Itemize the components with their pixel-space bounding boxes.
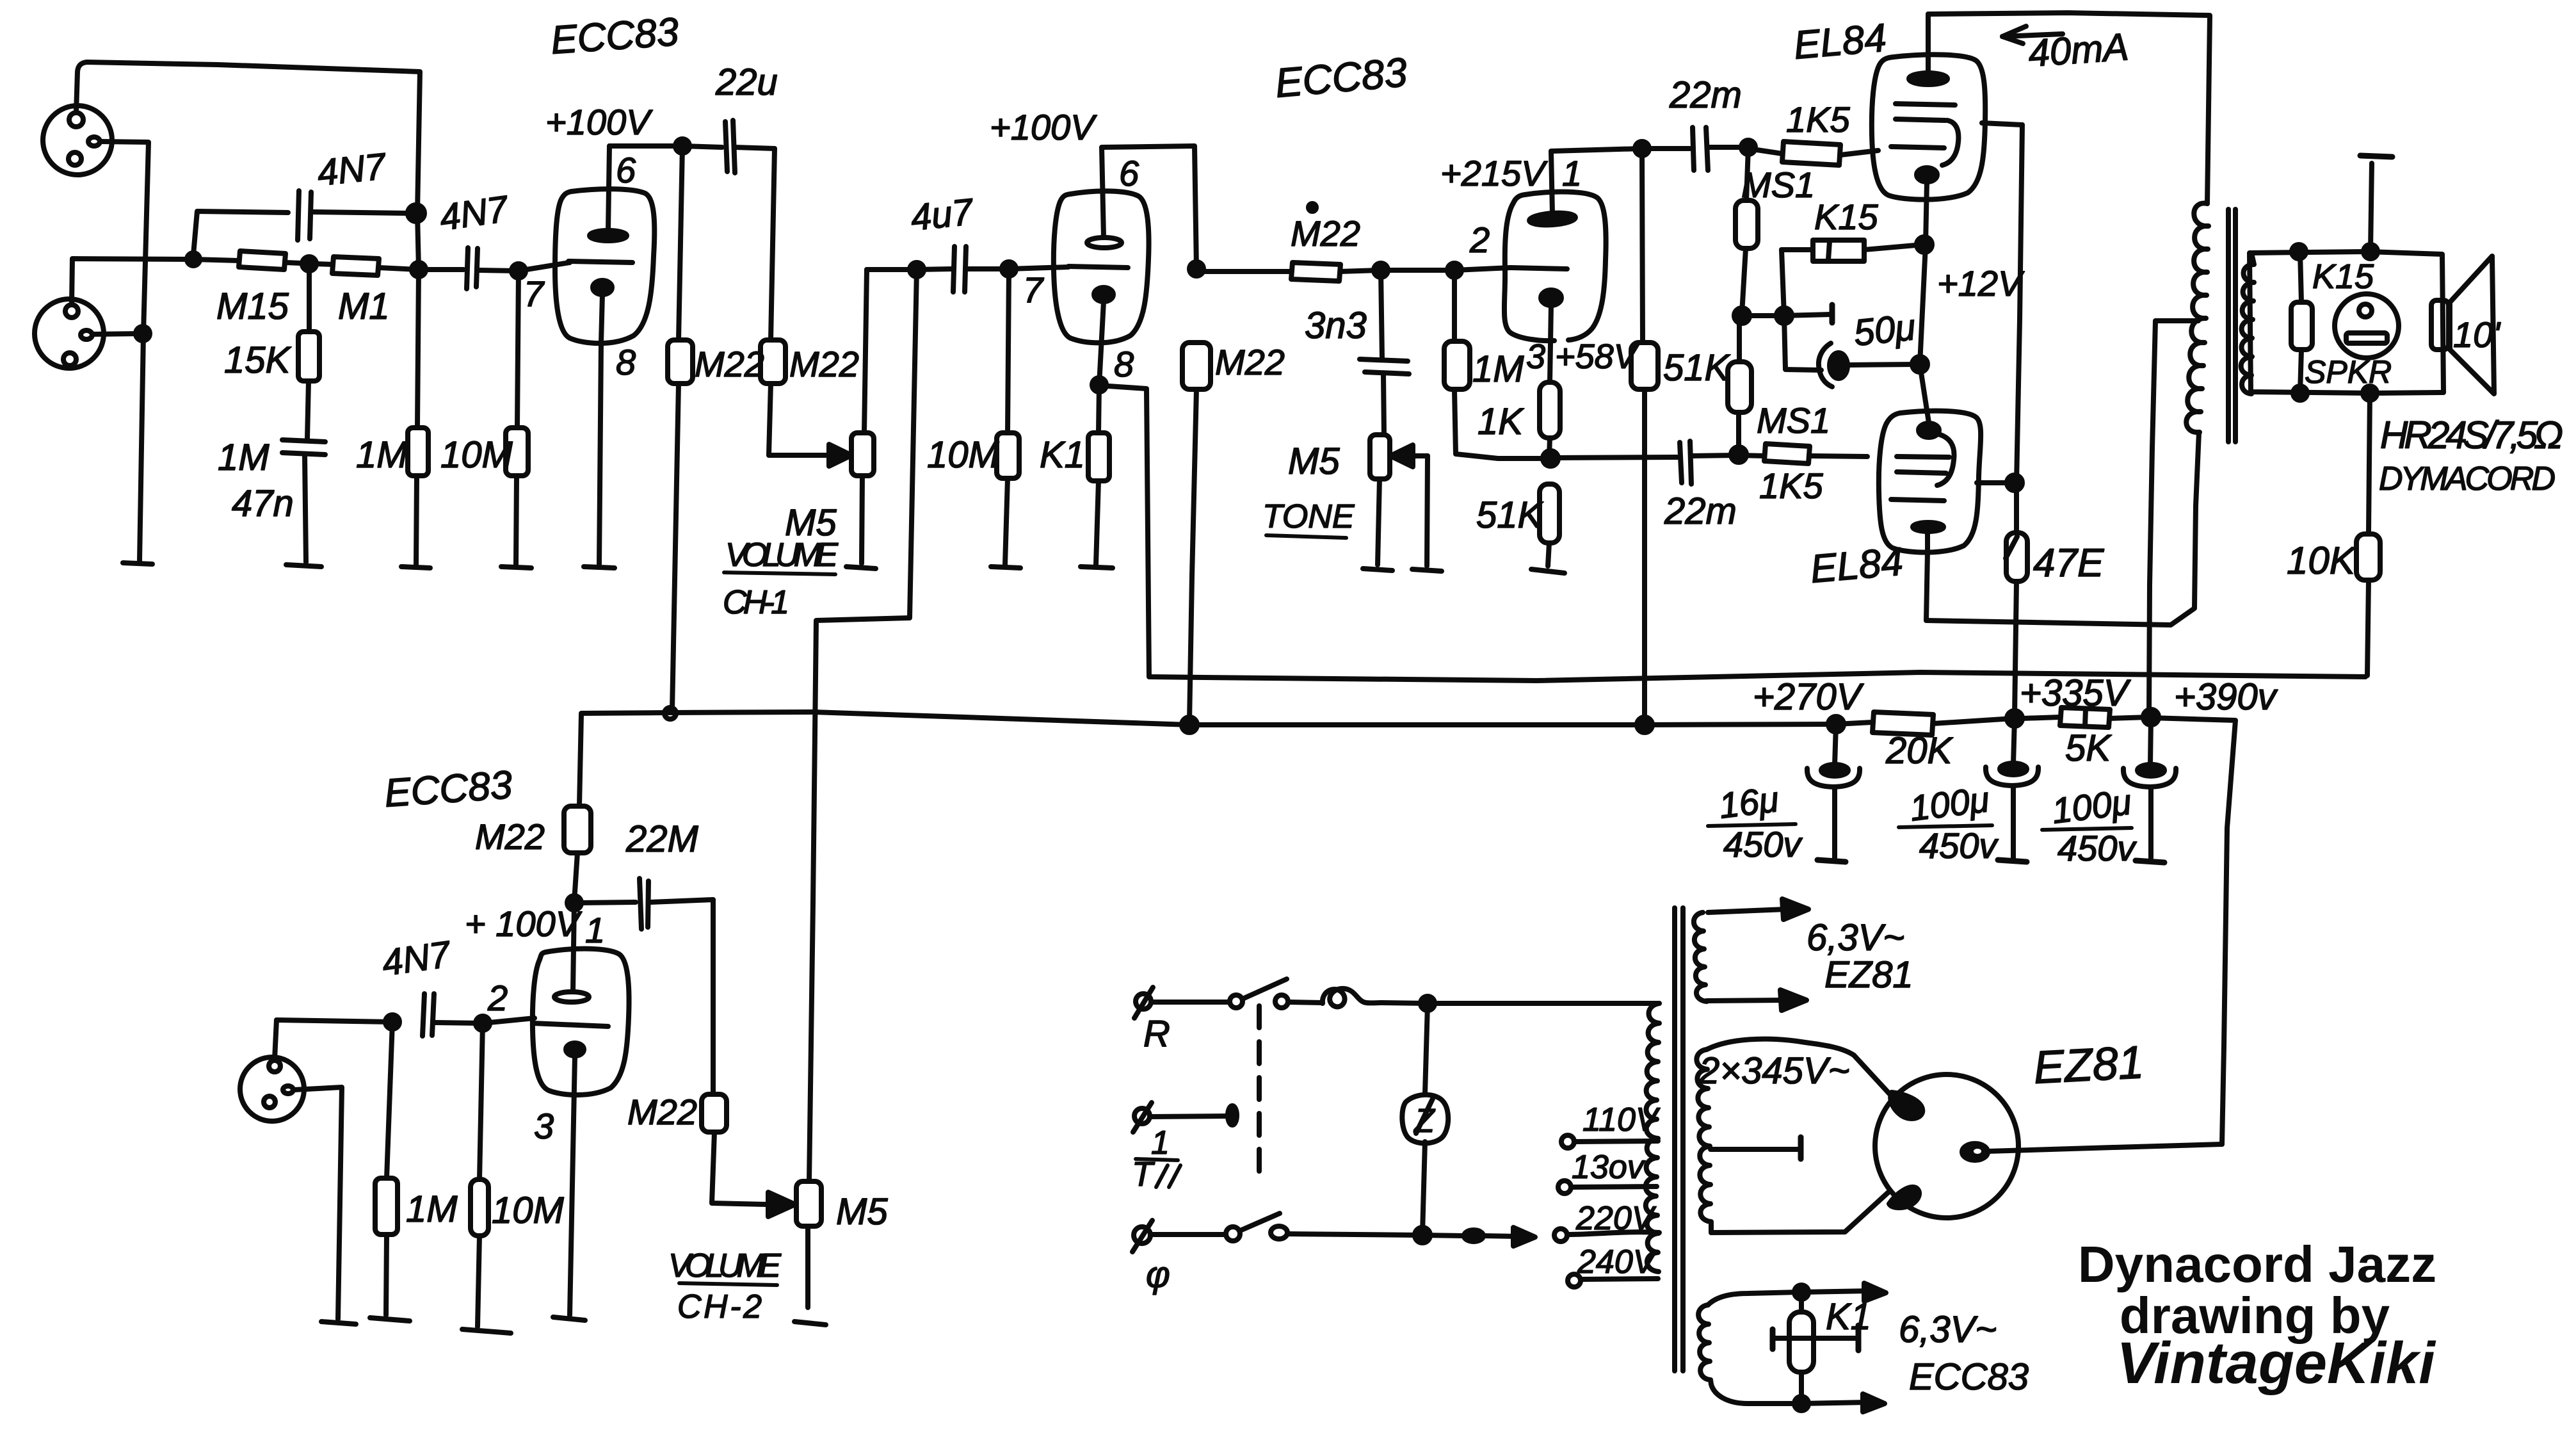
resistor 1K5 lower [1739,444,1867,464]
resistor 1M ch1 grid [408,270,428,565]
wire switch to fuse [1289,1002,1323,1003]
ground (1M) [401,567,430,568]
wire switch to 220V tap [1287,1234,1421,1235]
svg-text:450v: 450v [1723,824,1803,864]
svg-text:47n: 47n [232,483,294,524]
svg-text:4N7: 4N7 [316,145,389,194]
XLR connector J2 (input ch1 low) [35,299,104,368]
junction node H (V1b anode out) [1189,262,1203,276]
tube V3 grid [533,1023,608,1026]
junction node W [476,1016,490,1030]
bias end bar [1830,305,1835,323]
anode rail V2a [1551,149,1642,151]
svg-text:HR24S/7,5Ω: HR24S/7,5Ω [2380,414,2563,457]
svg-text:8: 8 [1114,344,1134,384]
svg-text:K15: K15 [2312,257,2374,296]
label 100u/450V second [2042,781,2137,868]
svg-text:6: 6 [1119,153,1139,193]
tube EL84 lower cathode [1919,423,1939,437]
svg-text:EL84: EL84 [1808,540,1904,592]
junction K1 top [1794,1285,1808,1299]
svg-text:3: 3 [534,1106,554,1146]
svg-text:2: 2 [487,978,508,1018]
svg-text:6: 6 [616,150,636,190]
svg-text:ECC83: ECC83 [1273,49,1409,106]
wire R to switch [1152,1000,1228,1005]
wire M15 to M1 [286,263,332,264]
K1 wiper bar [1773,1325,1858,1350]
resistor 10M tube2 [997,269,1019,565]
svg-text:10M: 10M [440,434,513,476]
svg-text:5K: 5K [2065,727,2112,769]
svg-text:22u: 22u [715,61,778,103]
junction +335V node [2007,711,2022,726]
anode rail V1b [1102,146,1196,269]
tube V2a grid [1511,268,1567,269]
svg-text:+12V: +12V [1937,263,2025,304]
ground (K1) [1081,567,1113,568]
rectifier EZ81 circle [1875,1074,2018,1218]
ground (tone pot) [1363,569,1392,571]
svg-text:3 +58V: 3 +58V [1526,337,1640,376]
svg-text:100μ: 100μ [1908,779,1992,829]
svg-text:100μ: 100μ [2050,781,2134,831]
svg-text:+215V: +215V [1440,153,1548,193]
junction node R (K15 to cathode bus) [1917,237,1932,252]
junction node D (tube1 grid) [511,264,526,278]
tap 130V [1558,1181,1657,1194]
tube ECC83 V1b envelope [1054,191,1149,343]
svg-text:2×345V~: 2×345V~ [1698,1050,1849,1092]
capacitor 4N7 (ch1 bridge) [193,191,410,255]
wire cathode V1b to rail A [1099,385,1203,677]
junction node G (tube2 grid) [1002,262,1016,276]
ground (10M tube2) [991,567,1020,568]
svg-text:R: R [1143,1013,1170,1055]
ground (J3) [321,1322,356,1324]
wire node D to tube1 grid [519,263,570,271]
svg-text:220V: 220V [1575,1200,1657,1237]
resistor M22 ch2 load [564,715,591,902]
junction node E [675,139,689,153]
svg-text:3n3: 3n3 [1305,305,1367,346]
resistor MS1 lower [1728,316,1751,453]
svg-text:+100V: +100V [990,107,1097,147]
capacitor 4N7 (ch1 coupling) [419,248,517,289]
resistor 47E [2006,533,2027,716]
tube V1a grid [568,261,632,263]
tube ECC83 V1a envelope [555,189,654,343]
tube V1b anode [1087,147,1122,248]
junction node F (4u7) [910,263,924,277]
junction node K (1M grid) [1447,263,1461,277]
junction +390V node [2143,709,2159,725]
junction node S [1731,447,1746,462]
capacitor 4u7 [917,247,1008,292]
wire junction Y to tap arrow [1422,1227,1659,1246]
heater winding 6.3V ECC83 [1698,1305,1711,1384]
wire volume top to 4u7 node [867,267,915,272]
junction node M (V2a anode) [1635,142,1649,156]
mains terminal R [1134,987,1153,1018]
svg-text:EZ81: EZ81 [1824,954,1913,996]
ground (10M) [501,567,531,568]
transformer core [1675,908,1683,1371]
junction node Q (50u to cathode bus) [1912,357,1928,372]
svg-text:SPKR: SPKR [2305,354,2392,390]
wire J3 top pin up [275,1020,277,1059]
wire node J to node K [1381,268,1454,273]
tube V1a cathode lead to ground [599,294,602,565]
resistor 51K (anode to grid EL84) [1631,149,1658,722]
resistor 10K [2356,393,2380,676]
ground (volume ch1) [846,567,876,569]
resistor M22 (V1b load) [1182,343,1211,722]
label 1/T11 [1132,1124,1180,1194]
svg-text:4u7: 4u7 [909,191,977,239]
resistor 51K lower [1540,484,1559,566]
svg-text:K15: K15 [1814,197,1878,237]
tube EL84 upper grids [1891,104,1958,165]
EZ81 anode flame lower [1889,1187,1919,1208]
svg-text:1M: 1M [1472,348,1524,390]
tube EL84 upper g2 exit [1982,123,2022,125]
svg-text:K1: K1 [1826,1296,1871,1338]
svg-text:M22: M22 [695,344,764,384]
svg-text:EL84: EL84 [1792,16,1888,68]
tube V1b cathode lead [1099,302,1104,385]
anode top rail V1a [609,146,722,147]
rail B +270V distribution [581,712,1836,725]
arrowhead wiper ch1 [829,444,851,466]
heater ECC83 top wire [1708,1283,1886,1305]
ground (10M ch2) [462,1329,511,1333]
junction node J (3n3) [1374,263,1388,277]
capacitor 50u [1784,316,1917,387]
resistor M22 ch2 coupling [702,1094,767,1204]
capacitor 47n [282,440,325,562]
ground (V3 cathode) [553,1317,585,1320]
switch pole 2 [1226,1213,1287,1241]
svg-text:10': 10' [2453,314,2501,355]
svg-text:+ 100V: + 100V [465,903,583,944]
junction J2 shield [136,327,150,341]
heater winding 6.3V EZ81 [1694,912,1707,1001]
junction K1 bottom [1794,1397,1808,1411]
junction node X (lamp top) [1421,996,1435,1010]
tube V1a cathode [593,280,612,295]
ground (51K) [1531,569,1565,573]
wire M1 to node A [379,268,419,270]
tube V1b grid [1068,266,1128,268]
junction node O [1734,308,1750,323]
svg-text:10K: 10K [2287,539,2357,582]
wire J1 top pin to top rail and down to node A [76,62,420,270]
OT secondary coil [2241,253,2254,394]
junction node A top [408,205,424,222]
tube V1b cathode [1094,287,1113,302]
tube EL84 upper cathode [1917,168,1937,243]
svg-text:15K: 15K [224,339,292,381]
svg-text:+270V: +270V [1753,676,1865,718]
svg-text:CH-1: CH-1 [723,584,789,621]
junction node L (phase out low) [1543,451,1558,466]
tone wiper arrow [1390,445,1428,566]
svg-text:ECC83: ECC83 [383,763,513,816]
rail B to right corner down to EZ81 [2151,718,2235,1144]
resistor 10M ch2 [471,1023,488,1327]
junction node Y (lamp bottom) [1415,1227,1430,1243]
wire J1 right pin down to ground [100,142,149,561]
output transformer primary coil [2186,203,2209,432]
svg-text:16μ: 16μ [1717,779,1781,826]
svg-text:EZ81: EZ81 [2033,1037,2145,1094]
tube ECC83 V3 envelope [533,949,629,1095]
capacitor 22m upper [1642,127,1746,170]
capacitor 100u second [2123,718,2176,862]
svg-text:20K: 20K [1885,730,1954,772]
svg-text:1M: 1M [356,434,408,476]
svg-text:Z: Z [1413,1103,1436,1140]
svg-text:2: 2 [1469,220,1490,260]
svg-text:M22: M22 [1215,342,1285,382]
svg-text:Dynacord Jazz: Dynacord Jazz [2078,1236,2436,1293]
tube V2a cathode [1541,290,1561,305]
junction row wire [1742,314,1831,316]
chassis terminal above speaker [2360,156,2392,252]
svg-text:M22: M22 [627,1092,697,1132]
potentiometer K1 humdinger [1789,1292,1814,1402]
ground (47n) [286,565,321,567]
capacitor 4N7 ch2 [277,994,535,1036]
svg-text:+100V: +100V [545,102,653,142]
speaker driver [2431,256,2494,394]
svg-text:10M: 10M [927,434,1000,476]
tube V3 anode [554,903,589,1002]
potentiometer M5 VOLUME CH-2 [796,1181,821,1308]
svg-text:51K: 51K [1663,347,1731,389]
svg-text:M22: M22 [789,344,859,384]
resistor 15K [298,264,319,439]
svg-text:M5: M5 [836,1191,888,1233]
svg-text:1: 1 [585,910,605,950]
arrowhead wiper ch2 [768,1192,795,1217]
svg-text:1K: 1K [1477,401,1524,442]
svg-text:CH-2: CH-2 [677,1288,762,1325]
svg-text:50μ: 50μ [1852,306,1918,354]
svg-text:VintageKiki: VintageKiki [2116,1331,2436,1396]
svg-text:+390v: +390v [2174,676,2278,718]
label 16u/450V [1708,779,1803,864]
svg-text:8: 8 [616,342,636,382]
ground (tone wiper) [1412,569,1442,571]
svg-text:6,3V~: 6,3V~ [1899,1309,1997,1350]
wire J2 top pin up and main input line ch1 [72,259,239,304]
ground (volume ch2) [794,1322,826,1325]
svg-text:M22: M22 [1291,213,1360,254]
svg-text:M22: M22 [475,816,545,857]
ground (1M ch2) [370,1318,410,1321]
XLR connector J3 (input ch2) [240,1057,304,1121]
potentiometer M5 VOLUME CH-1 [851,270,874,563]
svg-text:22m: 22m [1669,74,1742,116]
tube EL84 lower anode [1913,522,1944,620]
label VOLUME ch2 [668,1247,782,1285]
tap 110V [1561,1135,1658,1148]
label TONE underlined [1262,498,1355,538]
tube V2a cathode lead [1550,305,1551,382]
stray dot [1308,204,1316,211]
wire M22 to volume wiper with arrow [769,453,833,458]
label 100u/450V first [1899,779,1999,866]
junction dots speaker box [2292,245,2378,400]
tube EL84 lower envelope [1879,411,1981,553]
svg-text:M1: M1 [338,286,390,327]
junction node V [385,1015,399,1029]
OT core [2228,209,2235,442]
transformer primary coil [1646,1003,1659,1272]
label VOLUME ch1 [724,537,839,574]
resistor 1M ch2 [375,1022,398,1315]
svg-text:47E: 47E [2033,541,2104,585]
resistor MS1 upper [1735,147,1758,314]
capacitor 3n3 [1360,270,1409,435]
capacitor 22M ch2 [579,878,713,1094]
wire fuse to transformer primary top [1381,1003,1659,1003]
tube EL84 upper anode [1909,14,1947,85]
wire J2 right pin to shield bus [92,334,141,334]
resistor 1M tube3 grid [1444,270,1547,458]
svg-text:ECC83: ECC83 [1909,1356,2029,1398]
svg-text:4N7: 4N7 [380,933,455,984]
switch pole 1 [1230,979,1288,1008]
XLR connector J1 (input ch1) [43,106,112,175]
resistor M22 (22u series) [761,149,785,455]
svg-text:MS1: MS1 [1741,165,1815,205]
EZ81 anode flame upper [1890,1092,1922,1119]
resistor K1 (V1b cathode) [1088,385,1109,565]
potentiometer M5 TONE [1370,435,1390,565]
svg-text:6,3V~: 6,3V~ [1807,917,1904,959]
40mA arrow [2002,26,2063,44]
svg-text:450v: 450v [1919,825,1999,866]
svg-text:1: 1 [1562,153,1582,193]
OT primary bottom to EL84 lower anode [1926,432,2199,625]
fuse [1323,989,1381,1007]
junction node N (MS1 top) [1741,140,1755,154]
svg-text:DYMACORD: DYMACORD [2379,460,2556,498]
svg-text:VOLUME: VOLUME [725,537,839,574]
junction M22 load on +270V rail [1182,717,1197,733]
resistor K15 speaker [2291,252,2312,393]
speaker network box [2250,252,2443,393]
tube EL84 lower g2 exit [1977,480,2013,485]
ground (J1/J2 shield) [123,563,152,564]
svg-text:1K5: 1K5 [1759,466,1823,506]
svg-text:22M: 22M [625,818,699,860]
svg-text:4N7: 4N7 [437,188,512,239]
junction open circle on +270V rail [664,708,676,719]
cathode bus EL84s [1920,245,1929,423]
junction node C [302,257,316,271]
capacitor 16u electrolytic [1807,724,1860,862]
capacitor 22m lower [1550,441,1737,484]
SPKR jack circle [2335,294,2399,358]
ground (V1a cathode) [584,567,615,568]
tube EL84 lower grids [1891,434,1954,501]
svg-text:13ov: 13ov [1572,1149,1646,1186]
mains terminal Mp [1132,1220,1152,1252]
resistor 10M ch1 [506,271,528,565]
svg-text:110V: 110V [1582,1101,1661,1138]
dashed switch link [1257,1006,1262,1173]
top rail EL84 anode to OT [1928,13,2210,204]
tube V3 cathode [566,1043,584,1315]
tube ECC83 V2a envelope [1504,191,1606,341]
tap 240V [1568,1274,1658,1287]
screen bus 47E [2017,125,2022,533]
svg-text:450v: 450v [2057,828,2137,868]
svg-text:10M: 10M [492,1190,565,1231]
wire middle terminal to link [1150,1106,1237,1125]
junction node U (V3 anode) [567,896,581,910]
svg-text:1: 1 [1151,1124,1170,1162]
junction node P [1776,308,1792,323]
svg-text:TONE: TONE [1262,498,1355,535]
svg-text:MS1: MS1 [1757,400,1830,441]
resistor 1K [1540,382,1560,457]
OT primary center tap to +390V [2149,321,2198,716]
svg-text:ECC83: ECC83 [549,10,680,63]
resistor 20K [1836,712,2013,735]
resistor M1 [332,257,379,275]
resistor K15 (feedback) [1782,240,1923,316]
tube V2a anode [1529,151,1575,226]
wire node G to tube2 grid [1009,267,1068,269]
svg-text:7: 7 [524,273,545,314]
junction +270V node [1828,716,1844,732]
capacitor 22u [725,120,775,173]
svg-text:1K5: 1K5 [1786,99,1850,140]
junction S1K on +270V rail [1637,717,1652,733]
wire J3 right pin to ground [294,1087,342,1319]
svg-text:1M: 1M [218,437,270,478]
junction node A [412,263,426,277]
resistor 1K5 upper [1748,142,1878,165]
svg-text:VOLUME: VOLUME [668,1247,782,1284]
svg-text:1M: 1M [406,1188,458,1230]
svg-text:M5: M5 [1288,441,1340,482]
resistor M22 (to tone) [1196,263,1380,281]
EZ81 cathode [1962,1144,2222,1160]
svg-text:K1: K1 [1040,434,1085,476]
long wire node F down to volume CH-2 [809,270,917,1181]
heater ECC83 bottom wire [1711,1384,1885,1412]
svg-text:240V: 240V [1577,1243,1658,1281]
junction node T (g2 lower) [2007,475,2022,490]
svg-text:M15: M15 [216,286,289,327]
resistor M22 (V1a load) [668,146,693,711]
junction node B [187,253,200,266]
svg-text:22m: 22m [1664,490,1737,532]
lamp Z [1402,1005,1448,1234]
HT winding 2x345V [1696,1049,1711,1233]
rail A (cathode follower line) [1203,672,2365,681]
wire node K to tube3 grid [1454,268,1511,270]
tube V1a anode [590,146,627,241]
HT center tap [1711,1137,1801,1159]
tube EL84 upper envelope [1872,54,1985,199]
